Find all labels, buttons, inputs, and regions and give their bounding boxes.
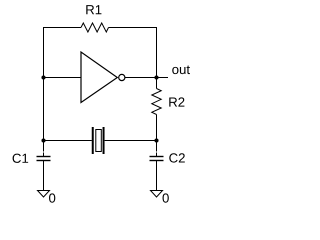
wire bottom left (to crystal) <box>43 140 92 142</box>
resistor R2 <box>152 89 161 115</box>
label C2 <box>169 153 185 162</box>
node junction bottom-left <box>41 138 45 142</box>
op-amp U1 inverter triangle <box>81 52 117 103</box>
capacitor C1 lead upper <box>43 140 45 152</box>
wire bottom right (from crystal) <box>105 140 157 142</box>
wire right rail upper <box>156 27 158 89</box>
capacitor C2 plates <box>150 156 164 158</box>
wire top-right feedback <box>109 27 158 29</box>
crystal right plate <box>103 127 105 154</box>
label R1 <box>86 5 101 14</box>
label 0 right ground <box>163 193 169 202</box>
inverter bubble <box>119 74 125 80</box>
wire top-left feedback <box>43 27 81 29</box>
wire inverter input <box>44 77 82 79</box>
node junction out <box>154 75 158 79</box>
capacitor C2 lead lower <box>156 161 158 190</box>
crystal left plate <box>92 127 94 154</box>
crystal body box <box>96 130 102 152</box>
label out <box>172 65 190 74</box>
node junction left-input <box>41 75 45 79</box>
ground symbol left <box>38 191 50 198</box>
capacitor C2 lead upper <box>156 140 158 152</box>
wire inverter output to node out <box>125 77 168 79</box>
ground symbol right <box>151 191 163 198</box>
label R2 <box>169 97 184 106</box>
node junction bottom-right <box>154 138 158 142</box>
wire left rail <box>43 27 45 141</box>
label C1 <box>13 154 29 163</box>
capacitor C1 lead lower <box>43 161 45 190</box>
resistor R1 <box>81 23 109 32</box>
label 0 left ground <box>49 193 55 202</box>
capacitor C1 plates <box>37 156 51 158</box>
wire right rail lower <box>156 115 158 142</box>
